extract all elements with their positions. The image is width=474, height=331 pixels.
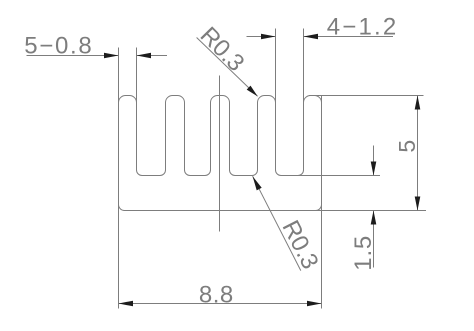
dimension 1.5 lower arrow line bbox=[373, 211, 375, 268]
arrowhead 4-1.2 left-pointing bbox=[304, 34, 319, 40]
extension line left edge (5-0.8 top, 8.8 bottom) bbox=[118, 48, 120, 309]
leader line top R0.3 bbox=[197, 38, 258, 97]
heatsink profile outline bbox=[119, 96, 322, 211]
extension line fin4 right edge (4-1.2) bbox=[275, 29, 277, 171]
arrowhead 5-0.8 right-pointing bbox=[104, 53, 119, 59]
extension line top of profile to 5 dim bbox=[309, 95, 424, 97]
dimension 4-1.2 line right part bbox=[304, 36, 394, 38]
dimension 5-0.8 line right part bbox=[137, 55, 168, 57]
arrowhead 5 bottom down bbox=[415, 197, 421, 211]
svg-text:4−1.2: 4−1.2 bbox=[327, 14, 399, 41]
svg-text:R0.3: R0.3 bbox=[277, 216, 324, 273]
arrowhead 1.5 lower up bbox=[371, 211, 377, 225]
arrowhead 5 top up bbox=[415, 96, 421, 110]
dimension 1.5 upper arrow line bbox=[373, 146, 375, 176]
svg-text:8.8: 8.8 bbox=[199, 282, 234, 309]
dimension 4-1.2 line left part bbox=[247, 36, 276, 38]
centerline through middle fin bbox=[219, 76, 221, 232]
extension line base bottom to 5 dim bbox=[125, 210, 427, 212]
svg-text:1.5: 1.5 bbox=[350, 235, 377, 271]
svg-text:5: 5 bbox=[394, 140, 420, 153]
extension line fin5 left edge (4-1.2) bbox=[303, 29, 305, 171]
dimension 5-0.8 line left part bbox=[27, 55, 119, 57]
extension line right edge down to 8.8 bbox=[321, 96, 323, 309]
svg-text:5−0.8: 5−0.8 bbox=[24, 33, 93, 60]
leader line bottom R0.3 bbox=[253, 176, 301, 270]
extension line base top to 1.5 dim bbox=[281, 175, 380, 177]
arrowhead 1.5 upper down bbox=[371, 162, 377, 176]
arrowhead 8.8 right tip bbox=[307, 301, 322, 307]
dimension 5 vertical line bbox=[417, 96, 419, 211]
svg-text:R0.3: R0.3 bbox=[195, 22, 250, 77]
extension line fin1 right edge bbox=[136, 48, 138, 171]
arrowhead leader top R0.3 bbox=[247, 86, 258, 97]
arrowhead 8.8 left tip bbox=[119, 301, 134, 307]
arrowhead 5-0.8 left-pointing bbox=[137, 53, 152, 59]
arrowhead leader bottom R0.3 bbox=[253, 176, 262, 190]
arrowhead 4-1.2 right-pointing bbox=[261, 34, 276, 40]
dimension 8.8 line bbox=[119, 303, 322, 305]
